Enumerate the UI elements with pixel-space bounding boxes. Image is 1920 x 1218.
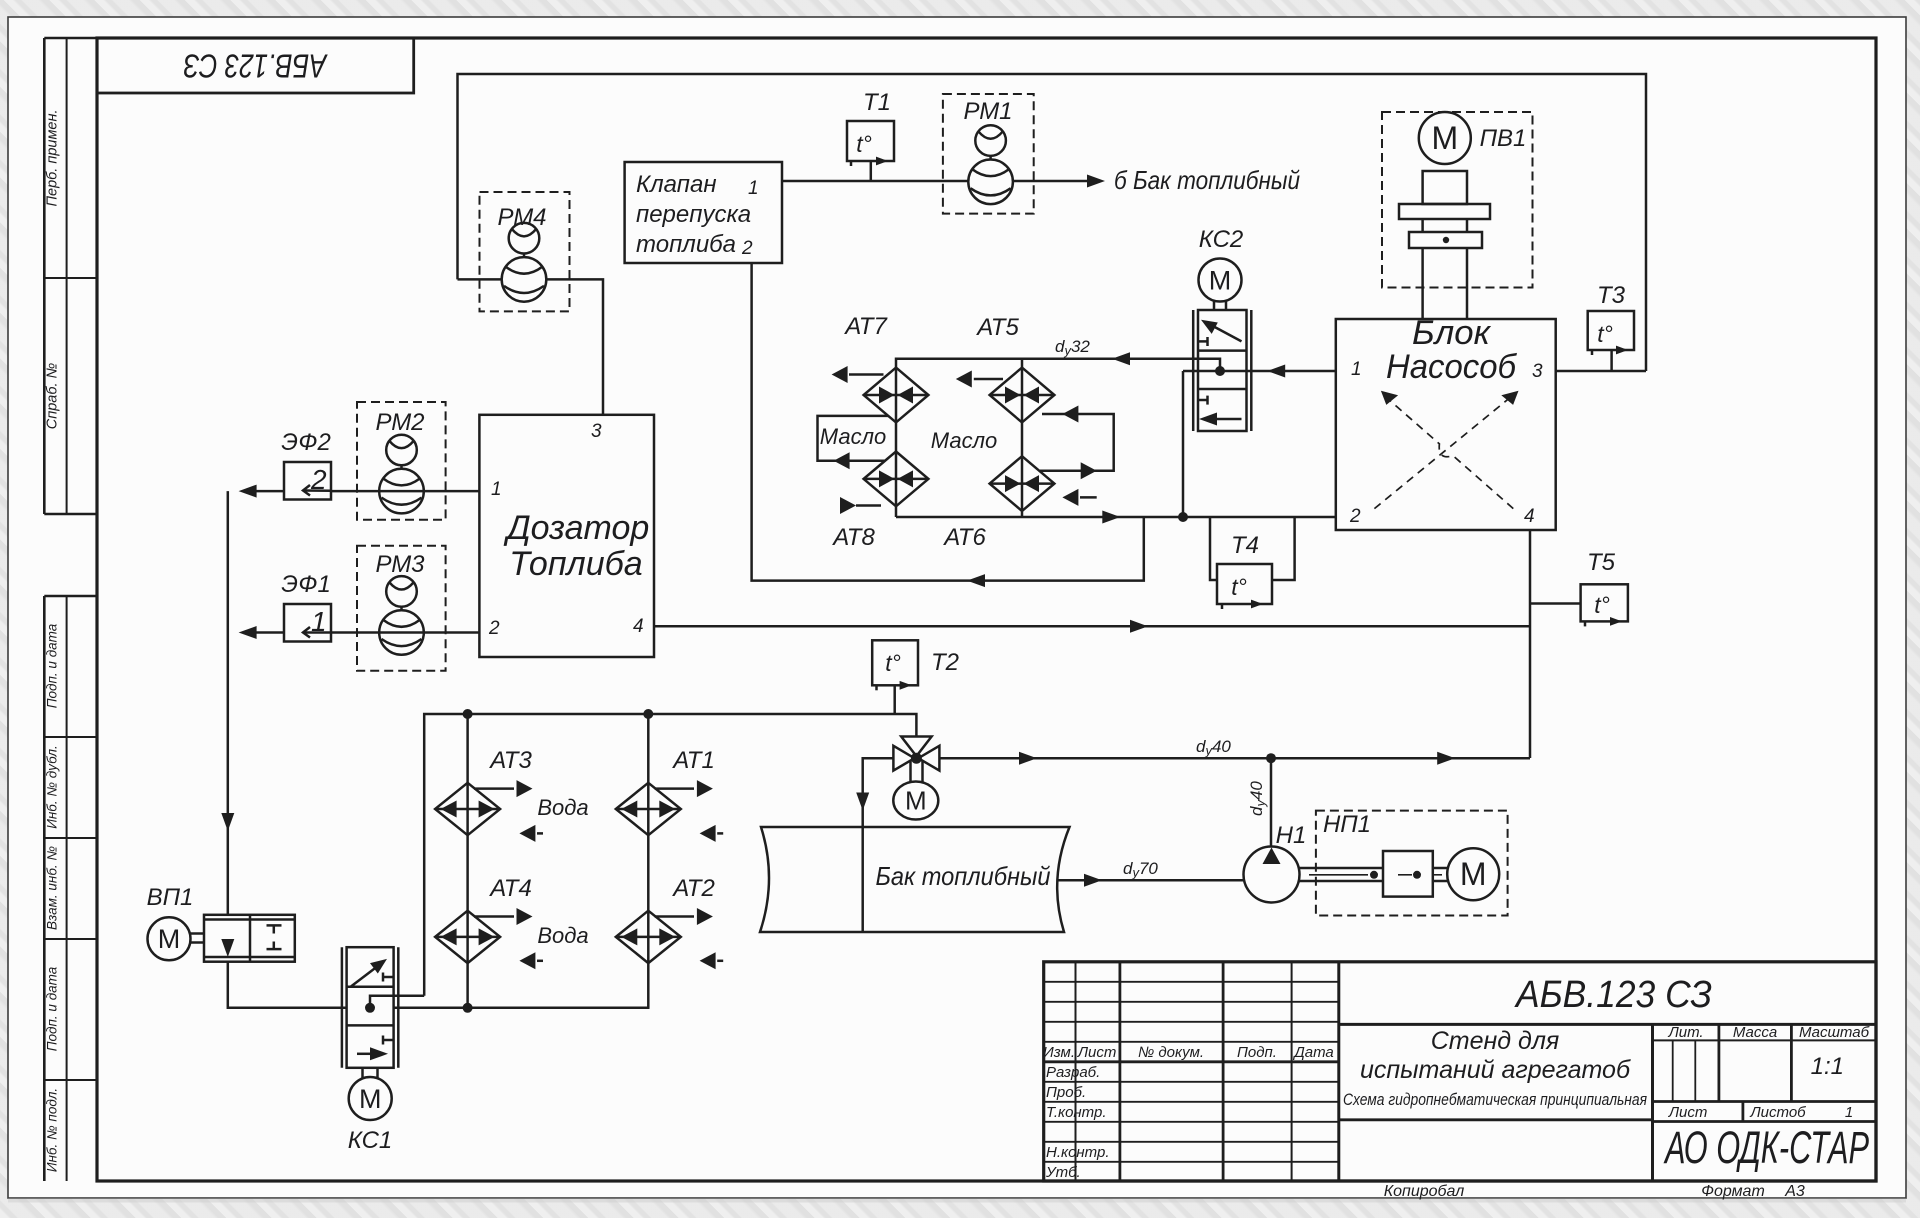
wire: Дозатор port 4 long run	[654, 625, 1530, 628]
АТ4 out arrows	[441, 928, 457, 945]
АТ3 out arrows	[441, 801, 457, 818]
paper lower shadow band	[8, 1199, 1906, 1203]
arrow on dy70	[1084, 874, 1102, 887]
wire: КС2 to Блок Насосов port 1	[1183, 370, 1336, 373]
wire: bottom bus через КС1 to АТ columns	[394, 1007, 650, 1010]
svg-text:АТ3: АТ3	[488, 747, 532, 774]
svg-text:перепуска: перепуска	[636, 201, 751, 228]
svg-text:Т5: Т5	[1587, 549, 1616, 576]
АТ8 butterfly arrows	[879, 470, 895, 487]
arrow into left drop (upper)	[239, 485, 257, 498]
shaft dot left	[1370, 871, 1378, 879]
АТ5 outlet arrowhead	[956, 371, 972, 388]
column line Изм|Лист	[1075, 962, 1077, 1181]
svg-text:А3: А3	[1784, 1183, 1805, 1200]
wire: dy70 tank to pump H1	[1057, 879, 1244, 882]
КС1 bottom arrow line	[357, 1053, 370, 1056]
svg-text:2: 2	[488, 618, 500, 639]
arrow on dy40 bus (left)	[1019, 752, 1037, 765]
svg-text:АТ2: АТ2	[671, 875, 715, 902]
svg-text:№ докум.: № докум.	[1138, 1044, 1204, 1061]
rule under Подп. и дата (1)	[44, 736, 97, 738]
wire: port 1 to ЭФ2	[228, 491, 480, 915]
drive unit НП1 (dashed enclosure)	[1316, 811, 1508, 916]
ПВ1 actuator stack	[1399, 171, 1490, 319]
heat exchanger АТ1	[616, 783, 694, 835]
svg-text:ВП1: ВП1	[147, 884, 194, 911]
wire: water bus elbow into 3-way valve	[896, 714, 916, 737]
signature rows	[1044, 1081, 1339, 1083]
svg-text:АТ7: АТ7	[843, 313, 888, 340]
wire: Клапан port 2 drop	[752, 263, 1144, 581]
svg-text:Проб.: Проб.	[1046, 1084, 1086, 1101]
junction dot КС2 drop / bus	[1178, 512, 1188, 522]
svg-text:Т4: Т4	[1231, 532, 1259, 559]
rule under title cell	[1339, 1118, 1653, 1121]
coupling box	[1383, 851, 1433, 897]
arrow on port 4 run	[1130, 620, 1148, 633]
filter ЭФ1	[284, 604, 331, 642]
svg-text:АТ5: АТ5	[975, 314, 1019, 341]
КС1 bottom arrowhead	[370, 1047, 388, 1060]
svg-text:Инб. № дубл.: Инб. № дубл.	[45, 745, 60, 829]
wire: КС2 drop to lower bus	[1182, 371, 1185, 516]
svg-text:Вода: Вода	[537, 795, 588, 820]
left margin top group top rule	[44, 37, 97, 40]
arrow on dy40 bus (right)	[1437, 752, 1455, 765]
svg-text:Спраб. №: Спраб. №	[45, 362, 61, 429]
svg-text:АБВ.123 СЗ: АБВ.123 СЗ	[1514, 974, 1712, 1016]
arrow on dy32 wire	[1112, 352, 1130, 365]
svg-text:РМ1: РМ1	[963, 98, 1012, 125]
svg-text:2: 2	[1349, 506, 1361, 527]
cross arrowhead up-left	[1381, 391, 1398, 405]
svg-text:M: M	[1209, 266, 1232, 296]
sensor T4 with loop	[1210, 517, 1295, 609]
heat exchanger АТ4	[435, 911, 514, 963]
svg-text:1: 1	[1845, 1104, 1853, 1121]
svg-text:t°: t°	[885, 650, 901, 676]
arrow on port 1 wire	[1267, 365, 1285, 378]
svg-text:t°: t°	[856, 131, 872, 157]
svg-text:Лист: Лист	[1077, 1044, 1117, 1061]
АТ2 lower stub	[700, 952, 716, 969]
flowmeter РМ3	[357, 546, 446, 671]
wire: Блок port 4 riser down to dy40 bus	[1529, 530, 1532, 758]
АТ4 upper stub arrowhead	[517, 908, 533, 925]
svg-text:M: M	[1431, 120, 1458, 156]
КС2 diagonal arrowhead	[1201, 320, 1218, 334]
right: column Масса|Масштаб	[1790, 1024, 1793, 1101]
АТ1 out arrows	[621, 801, 637, 818]
top stamp box АБВ.123 СЗ (rotated)	[97, 38, 414, 93]
svg-text:ЭФ2: ЭФ2	[281, 429, 331, 456]
КС2 blocked port tick bottom	[1198, 399, 1208, 402]
svg-text:2: 2	[310, 464, 327, 495]
motor M of КС2	[1213, 301, 1216, 310]
svg-text:Дозатор: Дозатор	[503, 509, 650, 547]
svg-text:ПВ1: ПВ1	[1480, 125, 1527, 152]
КС2 bottom section arrowhead	[1199, 413, 1217, 426]
svg-text:Стенд для: Стенд для	[1431, 1027, 1560, 1055]
svg-text:КС2: КС2	[1199, 226, 1244, 253]
left margin column line A	[43, 38, 46, 514]
arrow down into tank	[856, 793, 869, 811]
wire: РМ4 to Дозатор port 3	[458, 278, 503, 281]
svg-text:Листоб: Листоб	[1749, 1104, 1806, 1121]
rule under Подп. и дата (2)	[44, 1079, 97, 1081]
svg-text:Т3: Т3	[1597, 282, 1626, 309]
svg-text:M: M	[359, 1084, 382, 1114]
КС1 diagonal arrowhead	[370, 959, 387, 974]
svg-text:ЭФ1: ЭФ1	[281, 571, 331, 598]
АТ4 lower stub	[519, 952, 535, 969]
svg-text:Масштаб: Масштаб	[1799, 1024, 1870, 1041]
АТ3 upper stub arrowhead	[517, 780, 533, 797]
svg-text:t°: t°	[1597, 321, 1613, 347]
svg-text:Клапан: Клапан	[636, 171, 717, 198]
АТ7 butterfly arrows	[879, 387, 895, 404]
arrow: to fuel tank	[1087, 175, 1105, 188]
АТ7 outlet arrowhead	[832, 366, 848, 383]
rule under Взам. инв. №	[44, 938, 97, 940]
svg-text:M: M	[158, 924, 181, 954]
svg-text:dу40: dу40	[1247, 781, 1268, 816]
divider Дата|middle (thick)	[1337, 962, 1340, 1181]
loop lower arrowhead	[1081, 462, 1097, 479]
wire: lower bus АТ8/АТ6 to Блок port 2	[896, 516, 1336, 519]
header row bottom rule (thick)	[1044, 1060, 1339, 1063]
arrow on lower bus	[1102, 511, 1120, 524]
АТ1 upper stub arrowhead	[697, 780, 713, 797]
motor M of НП1	[1447, 848, 1499, 900]
svg-text:dу32: dу32	[1055, 337, 1090, 358]
svg-text:Топлиба: Топлиба	[509, 545, 642, 583]
svg-text:Вода: Вода	[537, 923, 588, 948]
sensor T3	[1588, 311, 1634, 371]
svg-text:Инб. № подл.: Инб. № подл.	[45, 1088, 60, 1172]
svg-text:б Бак топлибный: б Бак топлибный	[1114, 165, 1300, 195]
left margin column line B	[66, 38, 68, 514]
valve center junction dot	[911, 753, 922, 764]
revision rows	[1044, 981, 1339, 983]
heat exchanger АТ6	[990, 456, 1097, 511]
svg-text:3: 3	[1532, 361, 1543, 382]
dashed cross arrows inside pump block	[1374, 396, 1513, 509]
motor-actuator ПВ1 (dashed enclosure)	[1382, 112, 1533, 288]
T2 stub to pipe	[893, 685, 896, 714]
КС1 internal elbow	[370, 996, 424, 1008]
svg-text:Масло: Масло	[820, 424, 886, 449]
svg-text:Н.контр.: Н.контр.	[1046, 1144, 1110, 1161]
svg-text:1: 1	[491, 479, 502, 500]
junction dot dy40/H1	[1266, 753, 1276, 763]
pump block Блок Насосов	[1336, 319, 1556, 530]
rule under АБВ cell (thick)	[1339, 1023, 1876, 1026]
svg-text:АТ8: АТ8	[831, 524, 875, 551]
svg-text:КС1: КС1	[348, 1127, 393, 1154]
ВП1 shaft	[191, 932, 205, 935]
motor M of ВП1	[148, 917, 191, 960]
svg-text:Разраб.: Разраб.	[1046, 1064, 1100, 1081]
svg-text:РМ3: РМ3	[375, 551, 425, 578]
svg-text:РМ2: РМ2	[375, 409, 424, 436]
right: column Лит|Масса	[1718, 1024, 1721, 1101]
component: Клапан перепуска топлива box	[625, 162, 782, 263]
svg-text:3: 3	[591, 421, 602, 442]
junction dot КС1	[365, 1003, 375, 1013]
left margin bottom group column line A	[43, 596, 46, 1181]
wire: АТ3/АТ4 column	[466, 714, 469, 1008]
svg-text:АТ6: АТ6	[942, 524, 986, 551]
svg-text:Схема гидропнебматическая прин: Схема гидропнебматическая принципиальная	[1343, 1091, 1647, 1109]
sensor T1	[847, 121, 894, 166]
pipe through АТ5/АТ6	[1021, 359, 1024, 517]
oil supply box Масло	[818, 416, 889, 461]
pipe through АТ7/АТ8	[895, 368, 898, 517]
junction dot АТ1 top	[643, 709, 653, 719]
svg-text:Утб.: Утб.	[1045, 1164, 1081, 1181]
arrow into left drop (lower)	[239, 626, 257, 639]
shaft Н1 to coupling	[1299, 851, 1447, 897]
КС2 bottom section arrow line	[1216, 418, 1242, 421]
heat exchanger АТ2	[616, 911, 694, 963]
svg-text:Масса: Масса	[1733, 1024, 1777, 1041]
svg-text:АТ4: АТ4	[488, 875, 532, 902]
svg-text:РМ4: РМ4	[497, 204, 546, 231]
КС1 tick bottom	[383, 1039, 393, 1042]
heat exchanger АТ5	[974, 368, 1055, 423]
АТ2 upper stub arrowhead	[697, 908, 713, 925]
svg-text:Н1: Н1	[1276, 822, 1307, 849]
wire: left drop to ВП1	[227, 491, 230, 915]
svg-text:Масло: Масло	[931, 428, 997, 453]
svg-text:Подп. и дата: Подп. и дата	[45, 966, 60, 1051]
svg-text:t°: t°	[1231, 574, 1247, 600]
right: rule under Лист/Листов row	[1653, 1120, 1877, 1123]
sensor T2	[872, 640, 918, 714]
column line №докум|Подп	[1222, 962, 1225, 1181]
junction dot АТ3 bottom	[463, 1003, 473, 1013]
svg-text:Лист: Лист	[1668, 1104, 1708, 1121]
flowmeter РМ1	[943, 94, 1034, 214]
rule under Инв. № дубл.	[44, 837, 97, 839]
svg-text:4: 4	[633, 616, 644, 637]
wire: dy40 bus valve to right riser	[939, 757, 1530, 760]
КС2 blocked port tick top	[1198, 340, 1208, 343]
wire: top long pipe	[458, 74, 1647, 371]
АТ3 lower stub	[519, 825, 535, 842]
oil loop АТ5-АТ6	[1040, 414, 1114, 471]
wire: port 2 to ЭФ1	[331, 631, 479, 634]
shaft dot right	[1413, 871, 1421, 879]
wire: АТ1/АТ2 column	[647, 714, 650, 1008]
svg-text:Копиробал: Копиробал	[1384, 1183, 1465, 1200]
heat exchanger АТ8	[856, 452, 928, 507]
svg-text:Насособ: Насособ	[1386, 348, 1518, 386]
bottom group top rule	[44, 595, 97, 598]
АТ2 out arrows	[621, 928, 637, 945]
flow arrow on left drop	[221, 813, 234, 831]
filter ЭФ2	[284, 462, 331, 500]
wire: drop to pump H1	[1270, 758, 1273, 847]
cell rule under Справ №	[44, 513, 97, 516]
title block outer frame	[1044, 962, 1876, 1181]
svg-text:4: 4	[1524, 506, 1535, 527]
column line Лист|№докум	[1119, 962, 1122, 1181]
svg-text:АБВ.123 СЗ: АБВ.123 СЗ	[184, 48, 329, 85]
three-way valve with motor	[893, 737, 939, 771]
svg-text:Подп.: Подп.	[1237, 1044, 1277, 1061]
wire: T1 stub	[870, 161, 873, 181]
heat exchanger АТ7	[849, 368, 928, 423]
svg-text:dу40: dу40	[1196, 737, 1231, 758]
right: rule under value cells	[1653, 1100, 1877, 1103]
column line Подп|Дата	[1291, 962, 1293, 1181]
divider middle|right (thick)	[1651, 1024, 1654, 1181]
motor M of valve	[893, 782, 938, 820]
ПВ1 actuator dot	[1443, 237, 1449, 243]
svg-text:Бак топлибный: Бак топлибный	[876, 861, 1051, 891]
sensor T5	[1531, 584, 1628, 626]
svg-text:Т1: Т1	[863, 89, 891, 116]
ВП1 pump body	[204, 915, 295, 962]
svg-text:АТ1: АТ1	[671, 747, 715, 774]
junction dot АТ3 top	[463, 709, 473, 719]
valve stem to motor (double)	[909, 760, 912, 783]
wire: riser x424 to upper water bus	[424, 714, 896, 996]
svg-text:M: M	[1460, 856, 1487, 892]
left margin bottom group column line B	[66, 596, 68, 1181]
svg-text:Изм.: Изм.	[1043, 1044, 1075, 1061]
cell rule under Перв. примен.	[44, 277, 97, 279]
wire: dy32 line into КС2	[896, 359, 1220, 371]
svg-text:Дата: Дата	[1292, 1044, 1334, 1061]
pump Н1	[1244, 847, 1300, 903]
svg-text:Т.контр.: Т.контр.	[1046, 1104, 1107, 1121]
loop upper arrowhead	[1062, 406, 1078, 423]
svg-text:топлиба: топлиба	[636, 231, 736, 258]
АТ6 drain arrowhead	[1062, 489, 1078, 506]
АТ5 butterfly arrows	[1005, 387, 1021, 404]
junction dot inside КС2	[1215, 366, 1225, 376]
svg-text:Перб. примен.: Перб. примен.	[45, 110, 61, 207]
wire: ВП1 down to bottom bus	[228, 962, 347, 1008]
svg-text:1: 1	[311, 606, 327, 637]
КС1 tick top	[383, 976, 393, 979]
svg-text:НП1: НП1	[1323, 811, 1371, 838]
svg-text:2: 2	[741, 238, 753, 259]
arrow on Масло box bottom line	[834, 452, 850, 469]
motor M of ПВ1	[1419, 112, 1471, 164]
wire: Клапан port 1 to РМ1 and arrow	[782, 180, 969, 183]
svg-text:t°: t°	[1594, 592, 1610, 618]
heat exchanger АТ3	[435, 783, 514, 835]
valve КС2 body	[1193, 310, 1251, 431]
right: Лист|Листов divider	[1742, 1102, 1745, 1122]
svg-text:1: 1	[1351, 359, 1362, 380]
right: rule under Лит/Масса/Масштаб labels	[1653, 1039, 1877, 1041]
svg-text:испытаний агрегатоб: испытаний агрегатоб	[1360, 1056, 1631, 1084]
wire: valve left into tank	[863, 758, 894, 932]
АТ8 inlet arrowhead	[840, 497, 856, 514]
flowmeter РМ2	[357, 402, 446, 520]
КС2 top section diagonal	[1207, 323, 1242, 342]
flowmeter РМ4	[480, 192, 570, 311]
motor M of КС1	[361, 1068, 364, 1078]
svg-text:Взам. инб. №: Взам. инб. №	[45, 846, 60, 930]
АТ1 lower stub	[700, 825, 716, 842]
svg-text:Формат: Формат	[1701, 1183, 1765, 1200]
svg-text:Лит.: Лит.	[1667, 1024, 1703, 1041]
КС1 top diagonal	[351, 964, 381, 987]
svg-text:M: M	[905, 786, 927, 816]
svg-text:Подп. и дата: Подп. и дата	[45, 623, 60, 708]
cross arrowhead up-right	[1501, 391, 1518, 405]
Лит sub-columns	[1672, 1040, 1674, 1101]
svg-text:Блок: Блок	[1412, 314, 1492, 352]
svg-text:Т2: Т2	[931, 649, 959, 676]
ВП1 internal flow arrow	[221, 939, 234, 957]
svg-text:АО ОДК-СТАР: АО ОДК-СТАР	[1663, 1122, 1869, 1173]
svg-text:dу70: dу70	[1123, 859, 1158, 880]
АТ6 butterfly arrows	[1005, 475, 1021, 492]
arrow: return wire to Клапан (left)	[967, 574, 985, 587]
svg-text:1: 1	[748, 178, 759, 199]
svg-text:1:1: 1:1	[1811, 1053, 1844, 1080]
wire: Блок Насосов port 3 to right riser	[1556, 370, 1646, 373]
